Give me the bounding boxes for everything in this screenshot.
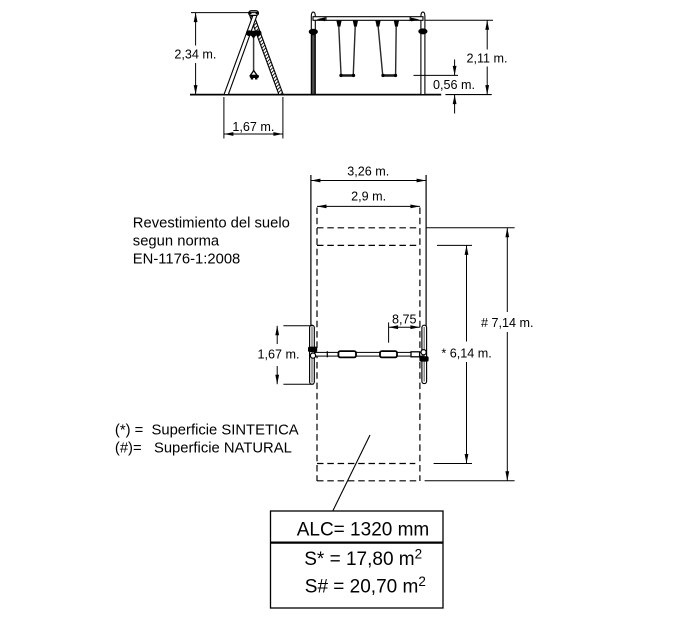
svg-text:(#)= Superficie NATURAL: (#)= Superficie NATURAL — [115, 441, 292, 457]
svg-text:# 7,14 m.: # 7,14 m. — [481, 316, 534, 330]
svg-text:segun norma: segun norma — [133, 234, 220, 250]
svg-text:3,26 m.: 3,26 m. — [347, 164, 389, 178]
svg-text:2,34 m.: 2,34 m. — [174, 48, 216, 62]
svg-text:Revestimiento del suelo: Revestimiento del suelo — [133, 216, 290, 232]
svg-text:(*) = Superficie SINTETICA: (*) = Superficie SINTETICA — [115, 422, 299, 438]
svg-text:8,75: 8,75 — [392, 312, 417, 326]
svg-text:2,11 m.: 2,11 m. — [466, 52, 507, 66]
svg-text:S* = 17,80 m2: S* = 17,80 m2 — [304, 547, 422, 571]
svg-text:S# = 20,70 m2: S# = 20,70 m2 — [305, 574, 426, 598]
svg-text:2,9 m.: 2,9 m. — [351, 190, 386, 204]
svg-text:* 6,14 m.: * 6,14 m. — [441, 347, 491, 361]
svg-text:1,67 m.: 1,67 m. — [232, 120, 274, 134]
svg-text:EN-1176-1:2008: EN-1176-1:2008 — [133, 252, 241, 268]
svg-text:1,67 m.: 1,67 m. — [258, 347, 300, 361]
svg-text:ALC= 1320 mm: ALC= 1320 mm — [297, 519, 430, 540]
svg-text:0,56 m.: 0,56 m. — [433, 78, 475, 92]
